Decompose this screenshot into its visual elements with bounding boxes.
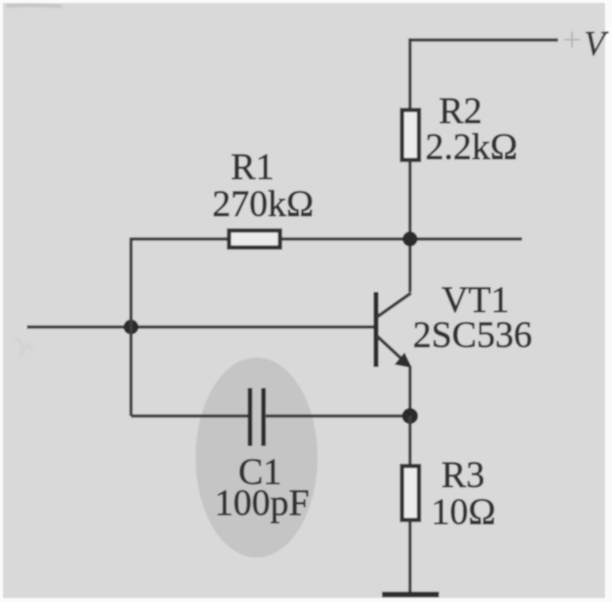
resistor R3 [402,466,419,520]
svg-text:10Ω: 10Ω [431,492,496,533]
wire: left vertical feedback rail [129,238,132,417]
svg-text:100pF: 100pF [215,483,310,524]
svg-text:R1: R1 [231,147,274,188]
wire: base bias rail horizontal through R1 [131,237,522,240]
junction node input/feedback [124,320,139,335]
collector diagonal [377,293,411,317]
wire: input line to base [27,325,375,328]
junction node emitter / C1 / R3 [402,408,418,424]
wire: node down to R3 [408,416,411,466]
wire: emitter down to node [408,366,411,416]
svg-text:R3: R3 [441,455,484,496]
capacitor C1 [250,388,264,446]
resistor R2 [402,110,419,160]
wire: R3 to ground [408,520,411,592]
svg-text:R2: R2 [439,91,482,132]
svg-text:2.2kΩ: 2.2kΩ [425,127,517,168]
wire: +V rail horizontal [410,38,558,41]
wire: R2 to collector node [408,160,411,292]
svg-text:270kΩ: 270kΩ [212,184,314,225]
resistor R1 [229,231,280,248]
wire: capacitor to emitter node [266,414,410,417]
wire: capacitor rail horizontal [131,414,248,417]
wire: collector rail from +V down to R2 [408,38,411,110]
junction node at collector / R1 [403,232,418,247]
transistor VT1 [376,292,412,368]
svg-text:2SC536: 2SC536 [413,315,532,356]
ground [382,592,439,598]
svg-text:+: + [562,22,581,59]
svg-text:V: V [584,25,609,63]
emitter diagonal with arrow [377,336,406,363]
highlight ellipse around C1 [196,358,318,558]
base bar [374,292,379,367]
